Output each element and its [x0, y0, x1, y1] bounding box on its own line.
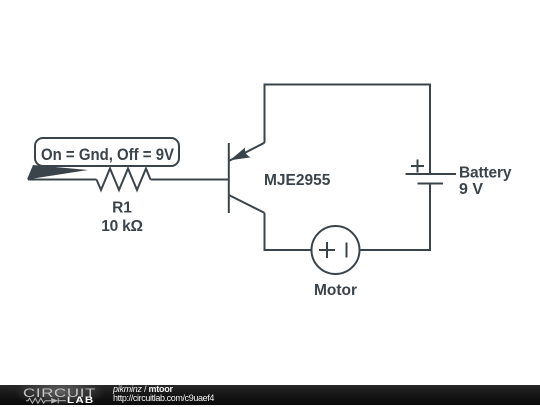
transistor Q1 base bar	[228, 143, 230, 213]
battery V1 bottom plate	[418, 183, 444, 185]
logo LAB text	[67, 395, 95, 405]
wire emitter to top rail to battery plus	[265, 85, 431, 175]
byline pikminz / mtoor	[113, 384, 173, 394]
wire collector down to motor	[265, 213, 312, 250]
callout box	[35, 138, 179, 166]
svg-text:9 V: 9 V	[459, 181, 483, 198]
svg-text:10 kΩ: 10 kΩ	[101, 218, 143, 235]
logo CIRCUIT text	[23, 386, 96, 400]
motor M1 plus sign	[319, 242, 335, 258]
svg-text:On = Gnd, Off = 9V: On = Gnd, Off = 9V	[41, 145, 175, 164]
transistor Q1 emitter diagonal	[229, 143, 265, 161]
callout tail	[27, 165, 88, 180]
logo resistor-diode glyph	[26, 397, 66, 405]
footer bar	[0, 385, 540, 405]
svg-text:Motor: Motor	[314, 282, 357, 299]
transistor Q1 emitter arrow	[230, 147, 251, 160]
resistor R1	[97, 169, 151, 191]
logo glow	[12, 383, 108, 407]
svg-text:R1: R1	[112, 200, 132, 217]
transistor Q1 collector diagonal	[229, 195, 265, 213]
motor M1 bar	[346, 243, 348, 258]
wire base net left segment	[28, 179, 97, 181]
motor M1 circle	[312, 226, 360, 274]
svg-text:Battery: Battery	[459, 165, 512, 182]
svg-text:MJE2955: MJE2955	[264, 172, 331, 189]
wire motor to battery minus	[360, 184, 431, 251]
battery V1 plus sign	[411, 160, 424, 173]
url line	[113, 393, 214, 403]
battery V1 top plate	[406, 173, 457, 175]
wire base net right segment	[151, 179, 229, 181]
